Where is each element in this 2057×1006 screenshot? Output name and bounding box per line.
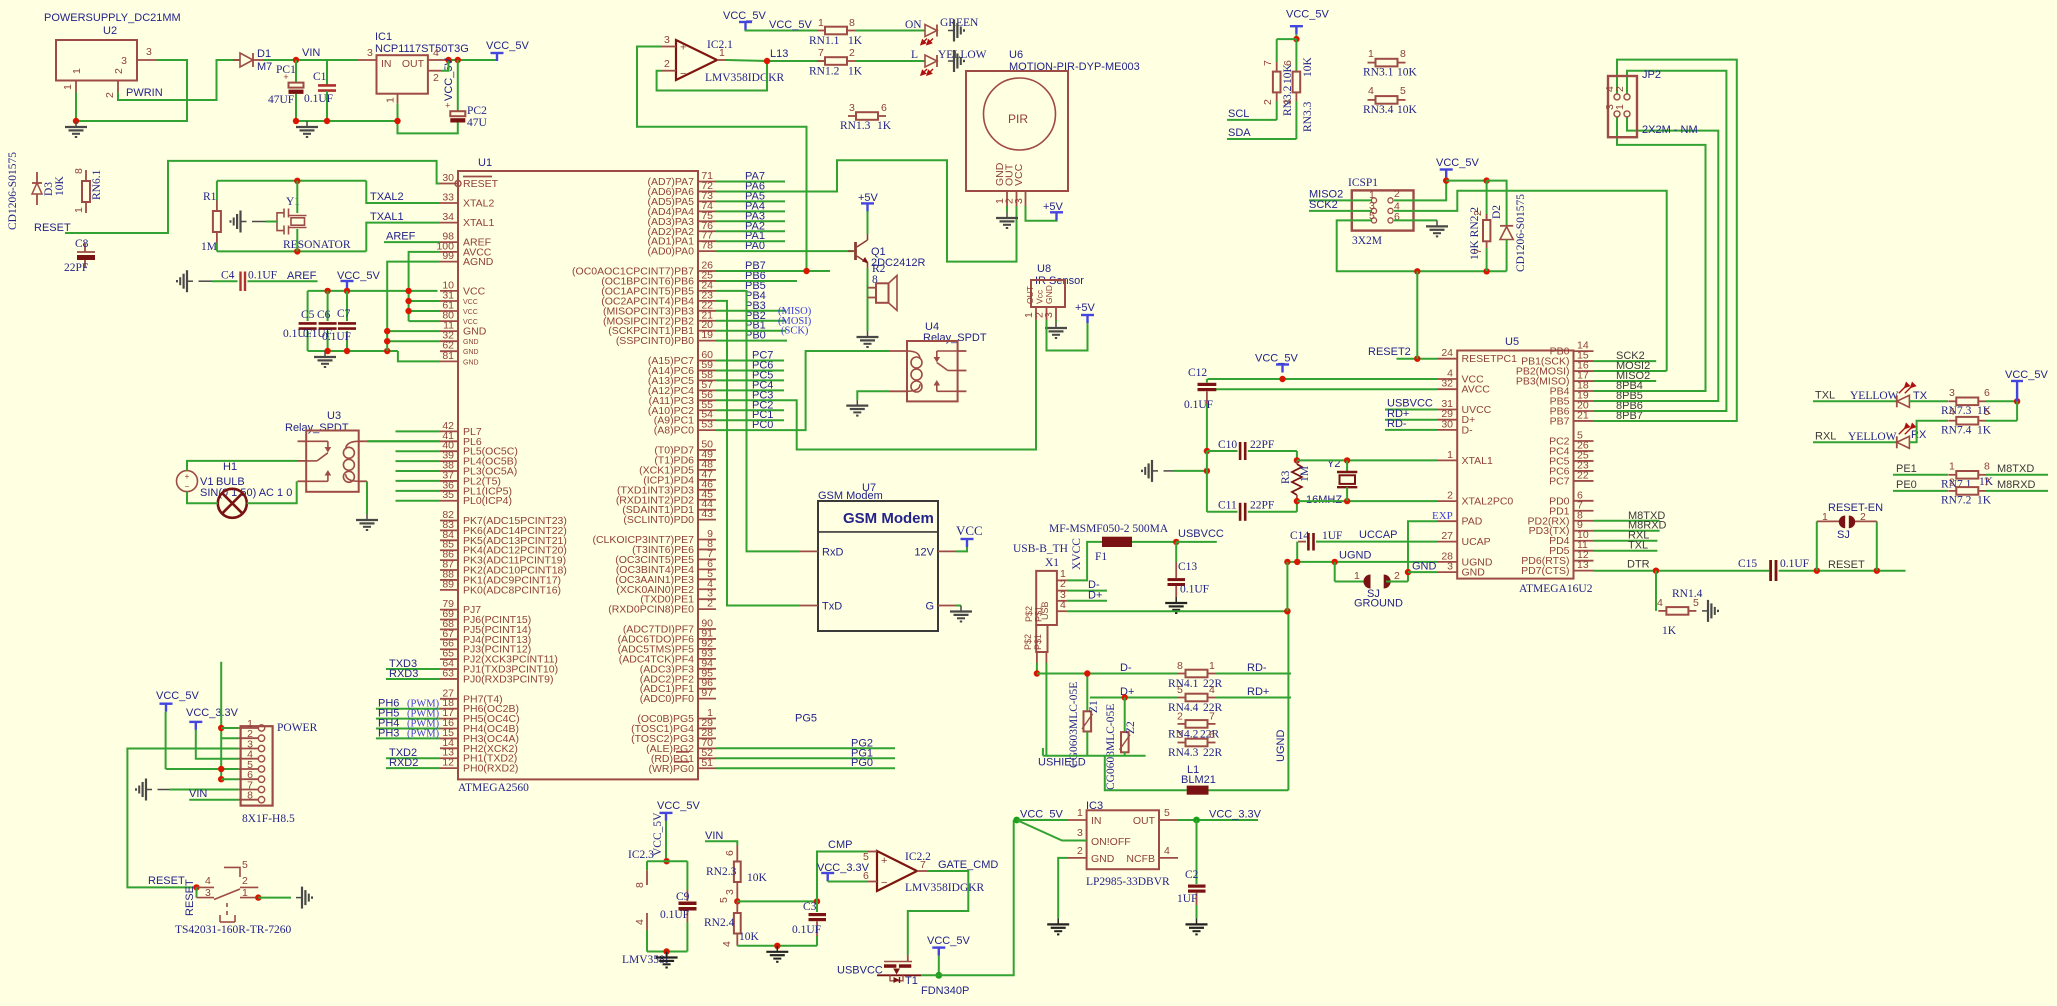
svg-text:(A8)PC0: (A8)PC0 xyxy=(654,425,694,437)
ground GSM xyxy=(956,605,961,607)
capacitor C3 0.1UF xyxy=(816,901,818,912)
ground xtal xyxy=(1142,460,1158,482)
svg-text:GND: GND xyxy=(1044,285,1054,304)
wire header pins xyxy=(165,712,167,769)
svg-text:−: − xyxy=(881,877,887,889)
svg-text:M8RXD: M8RXD xyxy=(1997,479,2036,491)
wire U4 pin2 gnd xyxy=(857,391,889,399)
wire PC2 to gnd xyxy=(398,104,458,134)
svg-text:2: 2 xyxy=(1177,711,1183,723)
svg-text:PH3: PH3 xyxy=(378,727,399,739)
svg-text:3: 3 xyxy=(1177,729,1183,741)
svg-text:5: 5 xyxy=(1400,85,1406,97)
diode D2 xyxy=(1506,191,1508,226)
svg-text:33: 33 xyxy=(442,192,454,204)
resistor RN7.3 1K xyxy=(1948,400,1956,402)
svg-text:4: 4 xyxy=(1209,684,1215,696)
varistor Z1 CG0603MLC-05E xyxy=(1086,674,1088,712)
svg-text:4: 4 xyxy=(433,47,439,59)
svg-text:U1: U1 xyxy=(478,157,492,169)
ground Q1 xyxy=(857,331,879,347)
svg-text:P$2: P$2 xyxy=(1023,634,1033,650)
svg-text:3: 3 xyxy=(664,34,670,46)
svg-text:ATMEGA16U2: ATMEGA16U2 xyxy=(1519,583,1593,595)
svg-text:RD+: RD+ xyxy=(1247,686,1269,698)
svg-text:RX: RX xyxy=(1911,429,1927,441)
svg-text:8: 8 xyxy=(247,790,253,802)
svg-text:3: 3 xyxy=(1949,387,1955,399)
svg-text:1K: 1K xyxy=(877,120,892,132)
svg-text:CG0603MLC-05E: CG0603MLC-05E xyxy=(1105,704,1117,790)
svg-text:TX: TX xyxy=(1913,390,1928,402)
svg-text:GND: GND xyxy=(463,326,487,338)
wire VCC rows xyxy=(409,252,440,321)
svg-text:LP2985-33DBVR: LP2985-33DBVR xyxy=(1086,876,1170,888)
svg-text:D-: D- xyxy=(1120,662,1132,674)
svg-text:TXAL1: TXAL1 xyxy=(370,211,404,223)
svg-text:RN4.4: RN4.4 xyxy=(1168,702,1199,714)
svg-text:43: 43 xyxy=(701,508,713,520)
wire UGND from usb pin4 xyxy=(1067,610,1288,612)
svg-text:PK0(ADC8PCINT16): PK0(ADC8PCINT16) xyxy=(463,584,561,596)
svg-text:ON!OFF: ON!OFF xyxy=(1091,836,1131,848)
svg-text:VCC_5V: VCC_5V xyxy=(156,690,199,702)
svg-text:99: 99 xyxy=(442,250,454,262)
svg-text:7: 7 xyxy=(920,859,926,871)
svg-text:XVCC: XVCC xyxy=(1071,538,1083,570)
svg-text:4: 4 xyxy=(721,941,733,947)
svg-text:C6: C6 xyxy=(317,309,331,321)
svg-text:+: + xyxy=(185,472,190,481)
supply +5V U6 xyxy=(1026,206,1057,221)
svg-text:LMV358IDGKR: LMV358IDGKR xyxy=(905,882,985,894)
svg-text:8: 8 xyxy=(1177,660,1183,672)
svg-text:VCC_5V: VCC_5V xyxy=(1286,9,1329,21)
svg-text:4: 4 xyxy=(1368,85,1374,97)
svg-text:RESONATOR: RESONATOR xyxy=(283,239,351,251)
net TXD2 RXD2 xyxy=(386,757,440,759)
svg-text:8: 8 xyxy=(73,168,85,174)
svg-text:VCC: VCC xyxy=(956,523,983,538)
svg-text:5: 5 xyxy=(242,859,248,871)
svg-text:VCC_5V: VCC_5V xyxy=(723,10,766,22)
LED TX xyxy=(1897,395,1910,407)
svg-text:U5: U5 xyxy=(1505,336,1519,348)
wire op-amp pin3 to PB7 xyxy=(637,47,830,272)
svg-text:10K: 10K xyxy=(1397,67,1418,79)
svg-text:U2: U2 xyxy=(103,25,117,37)
ground decoupling xyxy=(314,351,336,367)
svg-text:VCC_5V: VCC_5V xyxy=(927,935,970,947)
svg-text:USB: USB xyxy=(1040,601,1050,620)
svg-text:VCC_3.3V: VCC_3.3V xyxy=(186,707,239,719)
svg-text:M7: M7 xyxy=(257,61,272,73)
svg-text:27: 27 xyxy=(1441,530,1453,542)
wire icsp pin5 loop xyxy=(1337,220,1507,271)
resistor RN3.1 10K xyxy=(1368,62,1376,64)
svg-text:2: 2 xyxy=(664,58,670,70)
svg-text:C9: C9 xyxy=(676,891,690,903)
svg-text:IC1: IC1 xyxy=(375,31,392,43)
svg-text:IC2.3: IC2.3 xyxy=(628,849,654,861)
svg-text:7: 7 xyxy=(1984,477,1990,489)
svg-text:GND: GND xyxy=(463,359,479,366)
net SCK2 MOSI2 MISO2 xyxy=(1594,360,1657,362)
svg-text:3: 3 xyxy=(1077,827,1083,839)
svg-text:2: 2 xyxy=(1447,490,1453,502)
svg-text:D-: D- xyxy=(1462,424,1474,436)
svg-text:+5V: +5V xyxy=(1075,302,1096,314)
svg-text:IN: IN xyxy=(381,58,392,70)
svg-text:L13: L13 xyxy=(770,48,788,60)
svg-text:C4: C4 xyxy=(221,270,235,282)
svg-text:R1: R1 xyxy=(203,191,217,203)
svg-text:3: 3 xyxy=(1447,561,1453,573)
svg-text:2: 2 xyxy=(707,598,713,610)
ground Y1 xyxy=(231,211,247,233)
svg-text:1: 1 xyxy=(1077,807,1083,819)
svg-text:1: 1 xyxy=(719,47,725,59)
IC U1 ATMEGA2560 xyxy=(458,171,698,779)
ground U8 xyxy=(1055,320,1057,322)
svg-text:VCC_5V: VCC_5V xyxy=(1436,157,1479,169)
svg-text:RD-: RD- xyxy=(1247,662,1267,674)
resistor RN3.3 10K xyxy=(1295,39,1297,72)
svg-text:CD1206-S01575: CD1206-S01575 xyxy=(7,152,19,230)
svg-text:H1: H1 xyxy=(223,461,237,473)
svg-text:U8: U8 xyxy=(1037,263,1051,275)
svg-text:22: 22 xyxy=(1577,469,1589,481)
svg-text:X1: X1 xyxy=(1045,557,1059,569)
svg-text:8: 8 xyxy=(634,882,646,888)
svg-text:1: 1 xyxy=(1822,511,1828,523)
svg-text:2: 2 xyxy=(1614,86,1626,92)
svg-text:2: 2 xyxy=(1262,99,1274,105)
svg-text:D+: D+ xyxy=(1088,590,1102,602)
LED YELLOW xyxy=(925,55,937,67)
svg-text:G: G xyxy=(925,601,934,613)
net TXD3 RXD3 xyxy=(386,668,440,670)
svg-text:(SCK): (SCK) xyxy=(781,326,809,337)
svg-text:PD7(CTS): PD7(CTS) xyxy=(1521,565,1569,577)
svg-text:C12: C12 xyxy=(1188,367,1207,379)
svg-text:AREF: AREF xyxy=(287,270,317,282)
svg-text:GREEN: GREEN xyxy=(940,17,979,29)
svg-text:PC1: PC1 xyxy=(276,64,296,76)
source V1 SIN xyxy=(177,471,198,492)
net GND row U5 xyxy=(1405,569,1411,575)
svg-text:POWER: POWER xyxy=(277,722,318,734)
svg-text:RN1.2: RN1.2 xyxy=(809,66,840,78)
bulb H1 xyxy=(218,489,247,518)
net MOSI2 to ICSP/VCC xyxy=(1507,191,1667,371)
svg-text:16MHZ: 16MHZ xyxy=(1306,494,1342,506)
svg-text:7: 7 xyxy=(1209,711,1215,723)
net VCC_3.3V out xyxy=(1178,819,1258,821)
net TXAL2 TXAL1 xyxy=(366,181,440,203)
svg-text:2: 2 xyxy=(1394,570,1400,582)
svg-text:TXAL2: TXAL2 xyxy=(370,191,404,203)
svg-text:USBVCC: USBVCC xyxy=(837,965,883,977)
wire IC1 out / VCC_5V xyxy=(447,59,497,61)
net USBVCC / RD rows xyxy=(1385,409,1437,411)
svg-text:RXD3: RXD3 xyxy=(389,668,418,680)
svg-text:UCCAP: UCCAP xyxy=(1359,529,1398,541)
svg-text:PC7: PC7 xyxy=(752,350,773,362)
svg-text:RN2.4: RN2.4 xyxy=(704,917,735,929)
svg-text:(AD0)PA0: (AD0)PA0 xyxy=(648,246,695,258)
resistor R3 1M xyxy=(1296,451,1298,460)
svg-text:0.1UF: 0.1UF xyxy=(1184,399,1213,411)
svg-text:24: 24 xyxy=(1441,347,1453,359)
wire U3 coil bottom gnd xyxy=(366,481,368,514)
svg-text:PH0(RXD2): PH0(RXD2) xyxy=(463,763,518,775)
svg-text:C1: C1 xyxy=(313,71,327,83)
svg-text:VCC: VCC xyxy=(1013,163,1025,186)
wire U3 coil right to PL6 xyxy=(367,440,440,442)
svg-text:1UF: 1UF xyxy=(1177,893,1197,905)
wire RESET to switch xyxy=(127,749,238,888)
svg-text:PE0: PE0 xyxy=(1896,479,1917,491)
svg-text:34: 34 xyxy=(442,211,454,223)
svg-text:6: 6 xyxy=(724,850,736,856)
svg-text:USB-B_TH: USB-B_TH xyxy=(1013,543,1068,555)
op-amp IC2.2 xyxy=(877,851,917,891)
svg-text:C8: C8 xyxy=(75,238,89,250)
svg-text:VIN: VIN xyxy=(705,830,723,842)
svg-text:PIR: PIR xyxy=(1008,112,1028,126)
svg-text:(PWM): (PWM) xyxy=(407,728,440,739)
svg-text:2: 2 xyxy=(849,47,855,59)
svg-text:2: 2 xyxy=(242,875,248,887)
svg-text:VCC_5V: VCC_5V xyxy=(1020,809,1063,821)
svg-text:M8TXD: M8TXD xyxy=(1997,463,2034,475)
svg-text:ICSP1: ICSP1 xyxy=(1348,177,1378,189)
capacitor C9 0.1UF xyxy=(686,861,688,890)
net D- D+ usb xyxy=(1067,590,1107,592)
svg-text:VCC: VCC xyxy=(463,285,486,297)
svg-text:22R: 22R xyxy=(1203,747,1223,759)
wire op-amp out L13 xyxy=(726,60,767,61)
svg-text:6: 6 xyxy=(1282,60,1294,66)
svg-text:CD1206-S01575: CD1206-S01575 xyxy=(1515,194,1527,272)
wire bottom gnd xyxy=(737,945,817,947)
svg-text:C5: C5 xyxy=(301,309,315,321)
svg-text:C11: C11 xyxy=(1218,500,1237,512)
svg-text:0.1UF: 0.1UF xyxy=(1780,558,1809,570)
supply +5V U8 xyxy=(1047,320,1088,351)
svg-text:2: 2 xyxy=(1394,188,1400,200)
svg-text:0.1UF: 0.1UF xyxy=(304,93,333,105)
net PC7-PC0 xyxy=(716,351,890,430)
svg-text:7: 7 xyxy=(818,47,824,59)
svg-text:C10: C10 xyxy=(1218,439,1237,451)
svg-text:DTR: DTR xyxy=(1627,559,1650,571)
svg-text:0.1UF: 0.1UF xyxy=(248,270,277,282)
wire gnd rail xyxy=(308,350,398,352)
svg-text:19: 19 xyxy=(701,329,713,341)
svg-text:XTAL1: XTAL1 xyxy=(1462,455,1493,467)
svg-text:RESET-EN: RESET-EN xyxy=(1828,502,1883,514)
svg-text:D1: D1 xyxy=(257,48,271,60)
resistor RN1.3 1K xyxy=(848,115,856,117)
svg-text:1K: 1K xyxy=(848,66,863,78)
svg-text:Vcc: Vcc xyxy=(1035,289,1045,304)
svg-text:+: + xyxy=(680,42,686,54)
svg-text:RESET: RESET xyxy=(463,178,499,190)
capacitor C5 xyxy=(307,291,309,321)
svg-text:RD-: RD- xyxy=(1387,418,1407,430)
net VIN header pin8 xyxy=(189,799,238,801)
wire divider mid to C3 xyxy=(737,900,817,902)
svg-text:OUT: OUT xyxy=(1133,815,1156,827)
svg-text:22PF: 22PF xyxy=(1250,500,1274,512)
speaker R2 xyxy=(868,287,877,289)
resistor RN2.4 10K xyxy=(736,901,738,913)
svg-text:(RXD0PCIN8)PE0: (RXD0PCIN8)PE0 xyxy=(608,604,694,616)
svg-text:RN3.1: RN3.1 xyxy=(1363,67,1394,79)
svg-text:PC2: PC2 xyxy=(467,105,487,117)
svg-text:ON: ON xyxy=(905,19,922,31)
svg-text:NCFB: NCFB xyxy=(1126,853,1155,865)
svg-text:VCC: VCC xyxy=(463,299,478,306)
svg-text:RXD2: RXD2 xyxy=(389,757,418,769)
svg-text:1: 1 xyxy=(818,17,824,29)
svg-text:12V: 12V xyxy=(914,547,934,559)
svg-text:−: − xyxy=(185,482,190,491)
svg-text:VCC_5V: VCC_5V xyxy=(2005,369,2048,381)
svg-text:PE1: PE1 xyxy=(1896,463,1917,475)
svg-text:1M: 1M xyxy=(201,241,217,253)
svg-text:OUT: OUT xyxy=(402,58,425,70)
ground U6 pin1 xyxy=(1006,206,1008,212)
svg-text:VIN: VIN xyxy=(302,47,320,59)
svg-text:LMV358IDGKR: LMV358IDGKR xyxy=(705,72,785,84)
svg-text:8X1F-H8.5: 8X1F-H8.5 xyxy=(242,813,295,825)
wire Q1 emitter to speaker/gnd xyxy=(867,268,869,331)
svg-text:ATMEGA2560: ATMEGA2560 xyxy=(458,782,529,794)
svg-text:1: 1 xyxy=(1209,660,1215,672)
wire IC1 pin2 to out xyxy=(441,61,449,71)
LED GREEN xyxy=(925,25,937,37)
net DTR xyxy=(1594,570,1770,572)
net CMP xyxy=(817,852,867,902)
svg-text:VCC_5V: VCC_5V xyxy=(769,19,812,31)
svg-text:C13: C13 xyxy=(1178,561,1197,573)
svg-text:RESET: RESET xyxy=(1828,559,1865,571)
net PH6-PH3 PWM xyxy=(376,708,440,710)
svg-text:10K: 10K xyxy=(1302,57,1314,78)
svg-text:1: 1 xyxy=(71,68,83,74)
svg-text:3: 3 xyxy=(367,47,373,59)
svg-text:3: 3 xyxy=(849,102,855,114)
svg-text:(WR)PG0: (WR)PG0 xyxy=(649,763,695,775)
svg-text:RN7.3: RN7.3 xyxy=(1941,405,1972,417)
ground PC1/C1 xyxy=(296,121,318,137)
svg-text:VIN: VIN xyxy=(189,788,207,800)
svg-text:1K: 1K xyxy=(848,35,863,47)
svg-text:1: 1 xyxy=(73,207,85,213)
svg-text:(ADC0)PF0: (ADC0)PF0 xyxy=(640,693,694,705)
svg-text:51: 51 xyxy=(701,757,713,769)
svg-text:3: 3 xyxy=(205,887,211,899)
svg-text:6: 6 xyxy=(1209,729,1215,741)
net PB7-PB0 xyxy=(716,340,787,342)
svg-text:10K: 10K xyxy=(1397,104,1418,116)
svg-text:4: 4 xyxy=(1060,599,1066,611)
svg-text:Z1: Z1 xyxy=(1088,700,1100,713)
svg-text:4: 4 xyxy=(634,919,646,925)
svg-text:0.1UF: 0.1UF xyxy=(1180,584,1209,596)
resistor RN6.1 xyxy=(85,170,87,181)
svg-text:TS42031-160R-TR-7260: TS42031-160R-TR-7260 xyxy=(175,924,292,936)
op-amp IC2.1 xyxy=(676,40,717,80)
svg-text:−: − xyxy=(680,68,686,80)
wire gnd bus xyxy=(296,120,398,122)
wire icsp pin2 to VCC xyxy=(1394,181,1446,201)
resistor RN7.4 1K xyxy=(1948,420,1956,422)
jumper SJ GROUND xyxy=(1334,562,1336,582)
resistor RN4.1 22R xyxy=(1178,673,1186,675)
svg-text:RN1.4: RN1.4 xyxy=(1672,588,1703,600)
svg-text:RESET: RESET xyxy=(184,879,196,916)
net SCL xyxy=(1227,119,1277,121)
svg-text:5: 5 xyxy=(718,897,730,903)
svg-text:53: 53 xyxy=(701,419,713,431)
svg-text:PB7: PB7 xyxy=(1550,415,1570,427)
svg-text:RN3.3: RN3.3 xyxy=(1302,101,1314,132)
svg-text:47U: 47U xyxy=(467,117,488,129)
wire USBVCC to IC3 xyxy=(921,820,1014,975)
svg-text:SCL: SCL xyxy=(1228,108,1249,120)
svg-text:30: 30 xyxy=(1441,418,1453,430)
svg-text:TXL: TXL xyxy=(1628,540,1648,552)
svg-text:AGND: AGND xyxy=(463,256,494,268)
svg-text:1: 1 xyxy=(1614,104,1626,110)
svg-text:PG0: PG0 xyxy=(851,757,873,769)
svg-text:1UF: 1UF xyxy=(1322,530,1342,542)
svg-text:RXL: RXL xyxy=(1815,431,1836,443)
svg-text:10K: 10K xyxy=(747,872,768,884)
ground header pin7 xyxy=(136,779,152,801)
svg-text:D2: D2 xyxy=(1491,205,1503,219)
svg-text:AREF: AREF xyxy=(386,231,416,243)
svg-text:BLM21: BLM21 xyxy=(1181,774,1216,786)
resistor RN3.4 10K xyxy=(1368,99,1376,101)
svg-text:GND: GND xyxy=(1412,561,1437,573)
svg-text:(SCLINT0)PD0: (SCLINT0)PD0 xyxy=(623,514,694,526)
wire VIN node xyxy=(263,59,358,61)
capacitor PC1 47UF xyxy=(295,60,297,83)
net PA7-PA0 xyxy=(716,250,854,252)
svg-text:P$2: P$2 xyxy=(1024,606,1034,622)
svg-text:RN2.3: RN2.3 xyxy=(706,866,737,878)
diode D1 M7 xyxy=(240,53,253,67)
svg-text:6: 6 xyxy=(881,102,887,114)
resistor RN4.2 22R xyxy=(1178,723,1186,725)
svg-text:UCAP: UCAP xyxy=(1462,536,1491,548)
svg-text:USHIELD: USHIELD xyxy=(1038,757,1086,769)
svg-text:2: 2 xyxy=(1077,845,1083,857)
svg-text:4: 4 xyxy=(1657,597,1663,609)
svg-text:RN1.3: RN1.3 xyxy=(840,120,871,132)
svg-text:10K: 10K xyxy=(54,176,66,197)
wire shield P$ xyxy=(1036,663,1038,674)
svg-text:TxD: TxD xyxy=(822,601,842,613)
svg-text:YELLOW: YELLOW xyxy=(938,49,987,61)
svg-text:3: 3 xyxy=(724,889,736,895)
svg-text:32: 32 xyxy=(1441,378,1453,390)
